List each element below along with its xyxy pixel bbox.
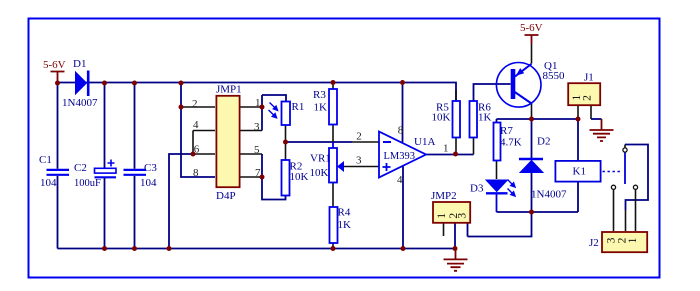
resistor R6 — [470, 101, 478, 138]
svg-text:D4P: D4P — [216, 190, 236, 202]
svg-text:3: 3 — [356, 155, 362, 167]
svg-text:5: 5 — [254, 144, 260, 156]
junction JMP1 pin2 — [179, 105, 184, 110]
wire JMP1 pin2 — [181, 106, 215, 108]
junction JMP1 pin6 — [191, 152, 196, 157]
wire pin2 stub at op-amp — [352, 141, 379, 143]
dashed relay actuation link — [603, 171, 623, 173]
wire J1 pin2 to ground — [591, 118, 602, 120]
svg-text:3: 3 — [457, 213, 469, 219]
svg-text:R4: R4 — [338, 207, 351, 219]
junction ground bus at JMP1 — [167, 246, 172, 251]
svg-text:1K: 1K — [338, 219, 352, 231]
svg-text:10K: 10K — [432, 112, 451, 124]
junction supply at U1A pin8 — [400, 80, 405, 85]
svg-text:1: 1 — [255, 97, 261, 109]
relay common contact — [623, 148, 627, 152]
svg-text:1N4007: 1N4007 — [531, 189, 567, 201]
junction Q1 collector — [529, 117, 534, 122]
wire JMP1 pin4 + link to pin6 — [193, 131, 215, 155]
svg-text:1: 1 — [443, 143, 449, 155]
junction JMP1 pin1 — [260, 105, 265, 110]
capacitor C2 (electrolytic) — [95, 160, 117, 178]
junction supply at JMP1 bus — [179, 81, 184, 86]
junction supply at R3 — [331, 80, 336, 85]
junction supply at C3 — [132, 81, 137, 86]
wire Q1 emitter stub — [531, 44, 533, 64]
junction JMP1 pin7 — [260, 175, 265, 180]
svg-text:100uF: 100uF — [74, 178, 101, 189]
resistor R3 — [329, 89, 337, 125]
junction J1 pin1 / K1 — [576, 117, 581, 122]
wire pins1-3 vertical — [261, 95, 263, 131]
connector J2 body — [602, 232, 647, 252]
svg-text:3: 3 — [254, 121, 260, 133]
svg-text:R1: R1 — [292, 101, 305, 113]
svg-text:1: 1 — [627, 237, 639, 243]
svg-text:J1: J1 — [584, 72, 594, 84]
resistor R2 — [282, 160, 290, 196]
svg-text:C1: C1 — [39, 154, 52, 166]
connector JMP2 body — [433, 202, 470, 223]
wire JMP1 pin6 + riser to ground bus — [169, 154, 193, 249]
wire J1 pin1 stub — [577, 106, 579, 119]
svg-text:2: 2 — [356, 131, 362, 143]
junction R1-R2 node — [283, 140, 288, 145]
wire JMP1 pin6 stub — [193, 153, 215, 155]
wire bottom ground bus — [58, 248, 456, 250]
svg-text:K1: K1 — [573, 165, 586, 177]
wire R1 bottom to R2 top through node — [285, 125, 287, 160]
junction D2 anode node — [529, 210, 534, 215]
svg-text:2: 2 — [582, 95, 594, 101]
connector J1 body — [568, 83, 600, 105]
svg-text:R7: R7 — [500, 125, 513, 137]
power symbol 5-6V left — [51, 72, 65, 84]
wire op-amp pin8 riser — [402, 83, 404, 144]
diode D2 (flyback) — [519, 159, 543, 173]
capacitor C3 — [124, 170, 147, 175]
svg-text:5-6V: 5-6V — [43, 59, 66, 71]
relay NO contact — [633, 185, 637, 189]
svg-text:104: 104 — [140, 177, 157, 189]
wire inverting input (pin2) — [286, 141, 353, 143]
wire VR1 wiper to pin3 — [342, 166, 379, 168]
capacitor C1 — [47, 170, 70, 175]
junction ground bus at C2 — [102, 246, 107, 251]
wire pins1-3 to R1 top — [262, 95, 286, 102]
wire pins5-7 vertical and hook to R2 bottom — [262, 154, 286, 200]
power symbol 5-6V right + Q1 emitter feed — [525, 35, 539, 44]
svg-text:J2: J2 — [589, 237, 599, 249]
connector JMP1 body — [216, 96, 239, 187]
junction supply at C1/power — [55, 81, 60, 86]
ground symbol under JMP2 — [444, 249, 468, 271]
wire D2 cathode riser — [531, 119, 533, 158]
svg-text:U1A: U1A — [414, 136, 435, 148]
svg-text:D3: D3 — [470, 183, 484, 195]
junction comparator output at R5 — [453, 152, 458, 157]
svg-text:LM393: LM393 — [384, 151, 416, 162]
wire C3 branch — [134, 83, 136, 249]
svg-text:8550: 8550 — [543, 70, 566, 82]
wire VR1 top stub — [332, 142, 334, 148]
wire D3 cathode drop — [496, 194, 498, 212]
svg-text:1: 1 — [436, 213, 448, 219]
pin number labels — [192, 97, 449, 186]
wire JMP2 pin1 stub — [443, 224, 445, 237]
wire R6 top to Q1 base — [474, 84, 511, 101]
svg-text:10K: 10K — [290, 171, 309, 183]
svg-text:2: 2 — [192, 98, 198, 110]
resistor R5 — [453, 101, 461, 138]
svg-text:JMP1: JMP1 — [216, 84, 242, 96]
resistor R4 — [330, 207, 338, 243]
wire C1 branch — [57, 83, 59, 249]
wire R4 bottom to bus — [332, 243, 334, 249]
wire K1 top riser — [577, 119, 579, 160]
wire comparator output node — [426, 154, 474, 156]
wire R5 stubs — [455, 90, 457, 155]
wire JMP1 pin5 and pin7 tie — [239, 154, 262, 177]
junction ground bus at C3 — [132, 246, 137, 251]
relay NC contact — [611, 185, 615, 189]
svg-text:C3: C3 — [144, 162, 157, 174]
svg-text:10K: 10K — [310, 167, 329, 179]
wire JMP2 pin2 to bus — [454, 224, 456, 249]
junction ground bus at R4 — [331, 246, 336, 251]
svg-text:8: 8 — [398, 125, 404, 137]
wire JMP1 pin1 and pin3 tie — [239, 107, 262, 131]
svg-text:4: 4 — [193, 119, 199, 131]
wire R3 stubs — [332, 83, 334, 143]
wire NC contact to J2 pin3 — [613, 190, 615, 231]
wire J1 pin2 stub — [590, 106, 592, 119]
junction ground bus at JMP2 — [453, 246, 458, 251]
ground symbol at J1 — [590, 119, 614, 141]
svg-text:1K: 1K — [314, 102, 328, 114]
svg-text:6: 6 — [194, 144, 200, 156]
photoresistor R1 — [269, 102, 291, 126]
svg-text:1N4007: 1N4007 — [62, 97, 98, 109]
diode D1 — [76, 71, 89, 97]
wire R7 bottom to D3 top — [496, 161, 498, 180]
svg-text:7: 7 — [255, 167, 261, 179]
svg-text:VR1: VR1 — [310, 153, 331, 165]
wire VR1 bottom to R4 top — [332, 183, 334, 208]
svg-text:JMP2: JMP2 — [431, 190, 457, 202]
svg-text:4: 4 — [397, 174, 403, 186]
wire C2 branch — [104, 83, 106, 249]
svg-text:4.7K: 4.7K — [500, 136, 522, 148]
switch lever — [624, 153, 626, 185]
wire NO contact to J2 pin1 — [635, 190, 637, 231]
wire op-amp pin4 drop — [402, 167, 404, 249]
wire D2 anode drop — [531, 173, 533, 212]
junction ground bus at U1A pin4 — [401, 246, 406, 251]
wire collector net y=119 — [497, 119, 579, 123]
relay coil K1 — [555, 161, 600, 182]
wire JMP1 left bus — [181, 83, 215, 177]
connector pin digits (rotated) — [436, 94, 639, 243]
svg-text:C2: C2 — [74, 162, 87, 174]
wire R6 bottom stub — [473, 138, 475, 155]
svg-text:8: 8 — [193, 167, 199, 179]
LED D3 — [486, 180, 515, 197]
wire relay common contact loop — [625, 145, 648, 211]
op-amp U1A LM393 — [379, 132, 426, 178]
svg-text:104: 104 — [40, 177, 57, 189]
junction supply at C2 — [102, 81, 107, 86]
svg-text:D2: D2 — [537, 136, 550, 148]
svg-text:5-6V: 5-6V — [520, 22, 543, 34]
wire Q1 collector stub — [531, 103, 533, 119]
svg-text:R3: R3 — [313, 89, 326, 101]
svg-text:1K: 1K — [478, 112, 492, 124]
potentiometer VR1 — [329, 148, 344, 183]
resistor R7 — [494, 123, 501, 161]
wire common contact top stub — [624, 145, 627, 232]
wire top supply rail — [58, 83, 457, 102]
wire net y=212 (D3/D2/K1/JMP2-3) — [468, 183, 579, 237]
transistor Q1 (8550 PNP) — [496, 63, 541, 108]
svg-text:D1: D1 — [73, 58, 86, 70]
